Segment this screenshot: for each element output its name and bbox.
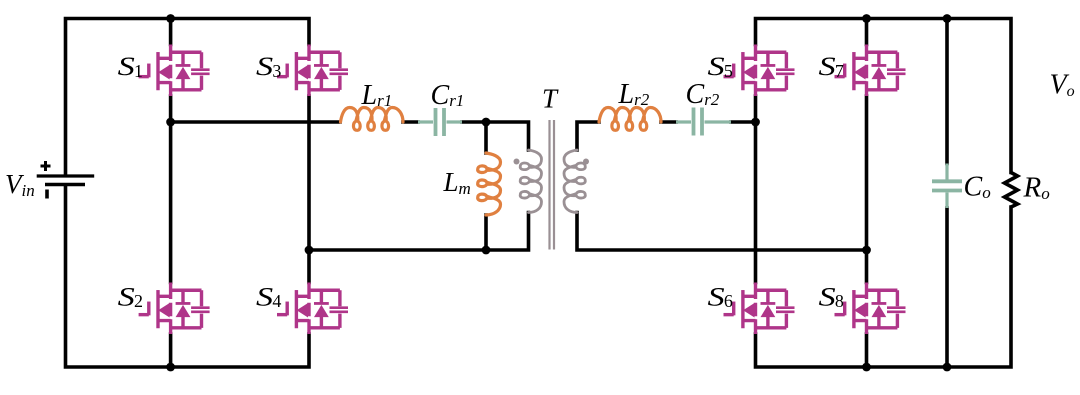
svg-text:S: S <box>118 282 135 311</box>
svg-text:7: 7 <box>835 61 844 81</box>
svg-text:6: 6 <box>724 291 733 311</box>
svg-text:S: S <box>819 282 836 311</box>
svg-text:1: 1 <box>134 61 143 81</box>
svg-text:3: 3 <box>272 61 281 81</box>
svg-text:S: S <box>256 282 273 311</box>
svg-text:5: 5 <box>724 61 733 81</box>
svg-text:T: T <box>542 84 559 114</box>
svg-text:S: S <box>708 282 725 311</box>
svg-text:S: S <box>819 52 836 81</box>
svg-text:2: 2 <box>134 291 143 311</box>
svg-text:S: S <box>708 52 725 81</box>
svg-text:8: 8 <box>835 291 844 311</box>
svg-text:4: 4 <box>272 291 281 311</box>
svg-text:S: S <box>118 52 135 81</box>
svg-text:S: S <box>256 52 273 81</box>
